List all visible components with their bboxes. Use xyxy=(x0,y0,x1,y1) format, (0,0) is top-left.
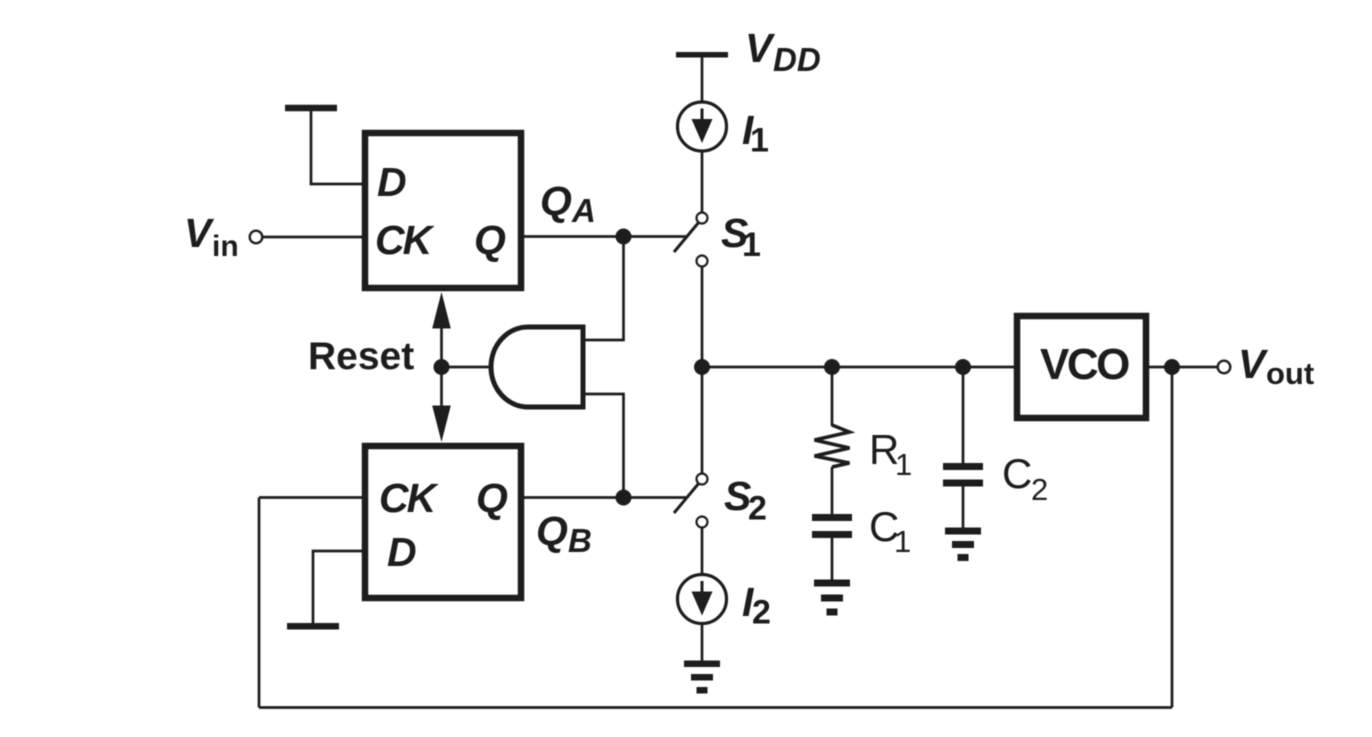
svg-text:2: 2 xyxy=(1031,472,1048,507)
ground (below C2) xyxy=(945,528,981,562)
wire VCO output xyxy=(1149,366,1218,369)
wire QA node to AND gate top input xyxy=(583,237,624,341)
node C2 branch xyxy=(955,359,971,375)
svg-text:1: 1 xyxy=(742,226,761,264)
terminal Vout xyxy=(1218,361,1231,374)
label Vout xyxy=(1238,341,1314,391)
svg-text:VCO: VCO xyxy=(1040,340,1129,389)
flip-flop FF_A box xyxy=(365,133,521,288)
wire tie bar to D (FF_B) xyxy=(313,551,363,623)
flip-flop FF_B box xyxy=(365,446,521,598)
wire feedback to FF_B CK xyxy=(259,496,363,499)
label QB xyxy=(536,508,592,559)
svg-text:in: in xyxy=(212,230,239,263)
wire center rail to VCO xyxy=(702,366,1014,369)
logic-high tie bar (FF_B D input) xyxy=(287,623,339,630)
wire center node to R1 xyxy=(831,367,834,426)
svg-text:V: V xyxy=(184,210,215,256)
reset line with double arrowheads xyxy=(432,292,451,442)
node QB junction xyxy=(616,490,632,506)
svg-text:out: out xyxy=(1266,356,1314,391)
svg-text:CK: CK xyxy=(375,217,436,263)
wire S1 to center node xyxy=(701,267,704,367)
wire C1 to ground xyxy=(831,538,834,580)
wire C2 to ground xyxy=(962,487,965,529)
switch S2 xyxy=(674,474,708,528)
label S1 xyxy=(721,210,761,264)
wire Q_B output xyxy=(523,496,686,499)
switch S1 xyxy=(674,213,708,267)
svg-text:1: 1 xyxy=(750,122,769,160)
VCO box U2 xyxy=(1017,316,1146,418)
svg-text:A: A xyxy=(571,192,596,229)
wire I1 to switch S1 xyxy=(701,151,704,212)
ground (below C1) xyxy=(814,580,850,616)
node Vout junction xyxy=(1164,359,1180,375)
label Vin xyxy=(184,210,239,263)
svg-text:D: D xyxy=(377,159,407,205)
svg-text:Q: Q xyxy=(536,508,568,554)
svg-text:Q: Q xyxy=(474,217,506,263)
wire tie bar to D (FF_A) xyxy=(311,111,363,184)
wire I2 to ground xyxy=(701,624,704,662)
label R1 xyxy=(869,426,912,482)
svg-text:DD: DD xyxy=(773,41,821,78)
label I2 xyxy=(742,579,771,632)
svg-text:B: B xyxy=(568,522,592,559)
label QA xyxy=(540,178,596,229)
resistor R1 xyxy=(815,425,850,467)
svg-text:Q: Q xyxy=(476,475,508,521)
label C1 xyxy=(869,503,911,559)
wire R1 to C1 xyxy=(831,467,834,515)
label VDD xyxy=(745,25,821,78)
current source I1 xyxy=(678,102,727,151)
wire S2 to I2 xyxy=(701,528,704,575)
wire center rail to C2 xyxy=(962,367,965,464)
wire feedback: left rise xyxy=(258,498,261,708)
svg-text:1: 1 xyxy=(894,524,911,559)
svg-text:V: V xyxy=(1238,341,1269,387)
node reset junction xyxy=(434,359,450,375)
power VDD bar xyxy=(676,52,728,58)
wire Q_A output xyxy=(523,235,686,238)
wire center node to switch S2 xyxy=(701,367,704,473)
svg-text:D: D xyxy=(387,529,417,575)
capacitor C1 xyxy=(812,514,852,538)
ground (below I2) xyxy=(684,661,720,694)
logic-high tie bar (FF_A D input) xyxy=(285,105,337,112)
terminal Vin xyxy=(250,231,263,244)
AND gate U1 (points left) xyxy=(491,327,583,407)
wire feedback: Vout down xyxy=(1171,367,1174,708)
wire feedback: bottom run xyxy=(259,706,1172,709)
svg-text:2: 2 xyxy=(748,490,767,528)
svg-text:CK: CK xyxy=(379,475,440,521)
label C2 xyxy=(1002,450,1048,507)
wire VDD to I1 xyxy=(701,58,704,103)
node QA junction xyxy=(616,229,632,245)
svg-text:2: 2 xyxy=(752,594,771,632)
current source I2 xyxy=(678,575,727,624)
svg-text:V: V xyxy=(745,25,776,71)
label I1 xyxy=(742,107,769,160)
node center (charge pump output) xyxy=(694,359,710,375)
label S2 xyxy=(724,473,767,528)
wire AND gate bottom input to QB node xyxy=(583,394,624,498)
wire Vin to FF_A CK xyxy=(263,236,364,239)
capacitor C2 xyxy=(943,463,983,487)
wire AND gate output to reset line xyxy=(442,366,493,369)
node R1 branch xyxy=(824,359,840,375)
svg-text:Reset: Reset xyxy=(308,335,414,378)
svg-text:C: C xyxy=(1002,450,1032,497)
svg-text:Q: Q xyxy=(540,178,572,224)
svg-text:1: 1 xyxy=(895,447,912,482)
